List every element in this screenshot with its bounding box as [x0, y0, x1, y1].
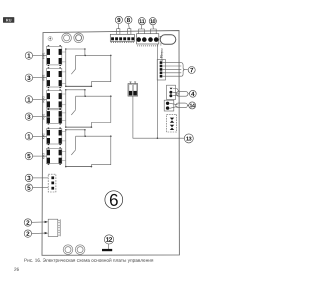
wire to callout 3: [33, 77, 47, 79]
callout 13: [184, 134, 193, 143]
wire to callout 3: [33, 116, 47, 118]
contact unit S2 throw wire: [76, 95, 112, 97]
connector X7 (power): [48, 219, 60, 236]
jumper header: [167, 114, 177, 132]
callout 10: [149, 18, 156, 25]
callout 5: [25, 152, 32, 159]
callout 8: [125, 16, 132, 23]
relay pad stubs to vertical: [62, 52, 66, 161]
arrow wire to callout 2a: [32, 221, 48, 223]
wire to callout 1: [33, 135, 47, 137]
contact unit S3 blade: [71, 136, 75, 155]
connector X2 (4-pin keyboard): [136, 34, 158, 44]
contact unit S2 bottom bus: [65, 126, 92, 128]
callout 12: [104, 235, 113, 244]
relay K2: [47, 67, 62, 88]
X5 wires: [170, 103, 178, 108]
X4 wires: [173, 89, 180, 96]
wire to callout 5b: [33, 187, 49, 189]
cable marker 14: [176, 103, 188, 108]
callout 14: [189, 102, 196, 109]
page number: [14, 268, 19, 271]
vertical bus wire: [156, 44, 158, 138]
cable marker 4: [176, 91, 188, 96]
contact unit S3 return jog: [91, 136, 110, 166]
caption: [24, 258, 153, 262]
mounting hole top-left: [62, 33, 72, 43]
X3 wires: [162, 63, 181, 77]
contact unit S1 return jog: [91, 55, 110, 86]
contact unit S3 left vertical: [65, 130, 67, 167]
plug to callout 11: [139, 25, 145, 34]
callout 9: [115, 16, 122, 23]
relay K4: [47, 109, 62, 125]
callout 1: [25, 52, 32, 59]
wire to callout 1: [33, 98, 47, 100]
X1 pin numbers row: [111, 41, 134, 43]
brace: [181, 63, 184, 77]
label KH2: [42, 134, 44, 139]
connector X4 (3-pin): [167, 85, 176, 99]
mounting hole bottom-left: [63, 245, 73, 255]
connector X5 (2-pin): [164, 100, 174, 111]
connector X6 (3-pin): [48, 174, 56, 192]
label KH1: [42, 114, 44, 119]
callout 1: [25, 133, 32, 140]
RU language tag: [3, 17, 14, 23]
plug to callout 10: [151, 25, 157, 34]
screw symbol: [48, 37, 52, 41]
contact unit S1 blade: [71, 55, 75, 74]
plug to callout 9: [117, 24, 120, 35]
contact unit S1 top wire: [65, 48, 86, 55]
mounting hole top-right: [74, 33, 84, 43]
connector X1 (6-pin display): [110, 34, 134, 41]
label KM3: [42, 96, 44, 102]
contact unit S1 bottom bus: [65, 86, 92, 88]
callout 6 (board): [105, 191, 123, 209]
label KM2: [42, 75, 44, 81]
vertical label text: [161, 49, 164, 61]
callout 3b: [25, 174, 32, 181]
label KH3: [42, 153, 44, 158]
contact unit S1 throw wire: [76, 55, 112, 57]
callout 5b: [25, 184, 32, 191]
relay K1: [47, 45, 62, 66]
relay K6: [47, 147, 62, 165]
callout 4: [189, 90, 196, 97]
callout 11: [138, 18, 145, 25]
callout 3: [25, 74, 32, 81]
plug to callout 8: [128, 24, 131, 35]
callout 2a: [24, 219, 31, 226]
contact unit S2 return jog: [91, 96, 110, 127]
X3 top label: [160, 56, 162, 58]
relay K5: [47, 128, 62, 146]
label KM1: [42, 53, 44, 59]
callout 7: [188, 67, 195, 74]
contact unit S1 left vertical: [65, 49, 67, 86]
buzzer oval: [160, 35, 176, 44]
ground: [102, 244, 112, 251]
relay K3: [47, 89, 62, 109]
board outline: [42, 31, 179, 256]
callout 3: [25, 113, 32, 120]
callout 2b: [24, 230, 31, 237]
contact unit S3 throw wire: [76, 135, 112, 137]
contact unit S2 top wire: [65, 89, 86, 96]
connector X3 (5-pin): [157, 60, 165, 81]
contact unit S3 bottom bus: [65, 166, 92, 168]
contact unit S2 blade: [71, 96, 75, 115]
contact unit S2 left vertical: [65, 90, 67, 127]
callout 1: [25, 96, 32, 103]
wire to callout 5: [33, 155, 47, 157]
arrow wire to callout 2b: [32, 232, 48, 234]
X2 label text: [137, 45, 158, 47]
varistor pair component: [128, 82, 138, 96]
wire to callout 13: [133, 96, 185, 139]
contact unit S3 top wire: [65, 129, 86, 136]
wire to callout 1: [33, 55, 47, 57]
wire to callout 3b: [33, 177, 49, 179]
X2 side marks: [159, 36, 161, 38]
mounting hole bottom-right: [75, 245, 85, 255]
